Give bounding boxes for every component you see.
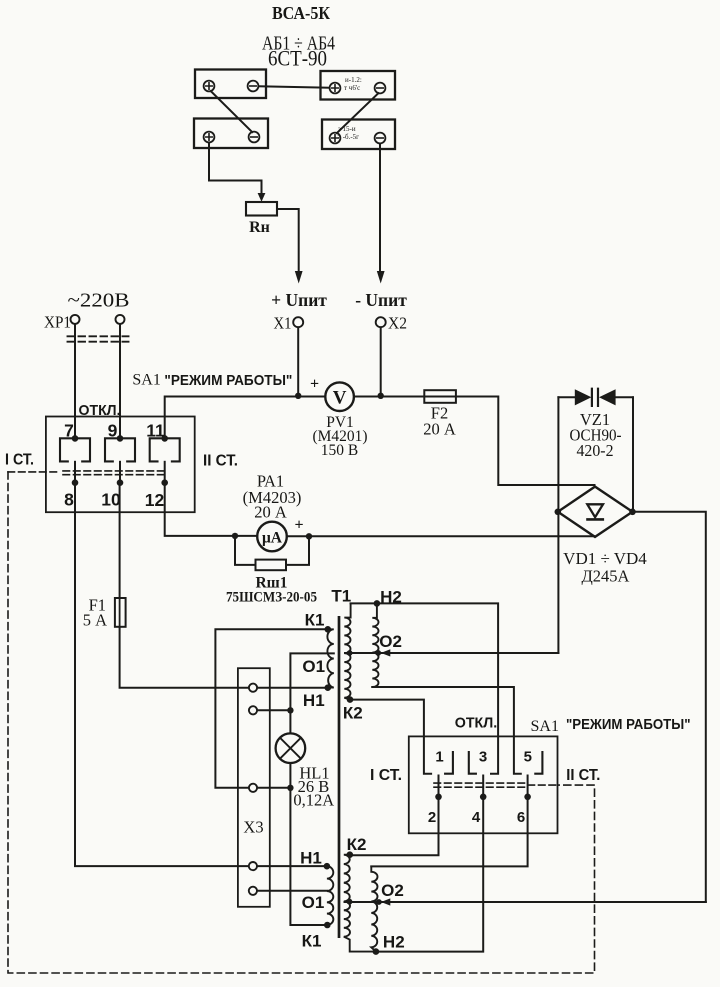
svg-text:X3: X3 — [243, 818, 263, 837]
T1 secondary outer column lower — [371, 866, 377, 951]
wire HL1 bottom down to K1-low — [290, 763, 327, 925]
terminal X2 — [376, 317, 386, 327]
svg-text:5: 5 — [524, 749, 532, 766]
battery GB4 — [322, 120, 395, 150]
contact 7 — [60, 438, 90, 461]
node K1-low — [324, 922, 331, 929]
svg-text:Д245А: Д245А — [582, 567, 630, 586]
transformer T1 core — [338, 617, 341, 936]
node K2-up — [347, 696, 354, 703]
svg-text:1: 1 — [435, 749, 443, 766]
svg-text:11: 11 — [146, 421, 165, 441]
wire X2 down — [380, 327, 382, 395]
node bridge right — [629, 509, 636, 516]
svg-text:420-2: 420-2 — [577, 441, 614, 460]
wire bridge right to lower O2 line — [633, 512, 706, 902]
svg-text:Н1: Н1 — [300, 848, 322, 867]
voltmeter PV1 — [325, 382, 354, 411]
wire X1 down — [297, 327, 299, 395]
svg-text:ВСА-5К: ВСА-5К — [272, 3, 330, 23]
node H2-up — [374, 600, 381, 607]
wire O1-low to X3 — [257, 890, 327, 892]
svg-text:SA1: SA1 — [531, 718, 559, 735]
svg-text:II СТ.: II СТ. — [203, 453, 238, 470]
wire contact8 down to X3 and H1-low — [75, 483, 327, 866]
svg-text:7: 7 — [64, 421, 74, 441]
lamp HL1 — [276, 733, 306, 763]
switch SA1 section 2 box — [409, 736, 558, 833]
svg-text:К1: К1 — [302, 932, 322, 951]
svg-text:+: + — [294, 517, 303, 534]
shunt Rsh1 — [235, 536, 309, 565]
svg-text:О2: О2 — [381, 881, 404, 900]
T1 secondary outer column upper — [372, 603, 378, 687]
battery GB1 — [195, 70, 266, 99]
wire contact11 to PV1 line — [165, 397, 326, 439]
svg-text:0,12А: 0,12А — [293, 790, 334, 809]
wire contact12 to PA1 line — [165, 483, 235, 536]
contact 11 — [150, 438, 180, 461]
node H2-low — [373, 948, 380, 955]
svg-text:X2: X2 — [388, 314, 407, 333]
mech link dashed loop — [8, 472, 595, 973]
svg-text:ХР1: ХР1 — [44, 313, 71, 332]
svg-text:+: + — [310, 376, 319, 393]
svg-text:"РЕЖИМ РАБОТЫ": "РЕЖИМ РАБОТЫ" — [164, 372, 292, 389]
wire GB4 to -U — [379, 144, 381, 272]
svg-text:75ШСМЗ-20-05: 75ШСМЗ-20-05 — [226, 590, 317, 606]
T1 primary winding lower H1-O1-K1 — [327, 866, 333, 925]
contact 1 — [445, 752, 453, 774]
svg-text:150 В: 150 В — [321, 442, 358, 459]
T1 secondary inner column lower — [344, 855, 373, 952]
svg-text:~220В: ~220В — [68, 290, 130, 312]
battery GB3 — [194, 119, 268, 149]
svg-text:Н2: Н2 — [380, 588, 402, 607]
svg-text:2: 2 — [428, 809, 436, 826]
node K1-up — [325, 626, 332, 633]
svg-text:12: 12 — [145, 490, 165, 510]
svg-text:ОТКЛ.: ОТКЛ. — [455, 715, 498, 732]
svg-text:и-1.2:: и-1.2: — [345, 76, 362, 84]
svg-text:6СТ-90: 6СТ-90 — [268, 46, 327, 71]
node O1/HL1 top — [287, 707, 293, 713]
contact 5 — [535, 752, 542, 774]
svg-text:- Uпит: - Uпит — [355, 290, 407, 310]
wire H2-up line to contact 3 — [351, 603, 499, 773]
fuse F1 — [115, 598, 126, 627]
wire K1-up loop to X3 and HL1 bottom — [215, 629, 327, 788]
node bridge left — [555, 509, 562, 516]
node X2 junction — [378, 393, 384, 399]
svg-text:8: 8 — [64, 490, 74, 510]
svg-text:20 А: 20 А — [254, 503, 287, 522]
svg-text:т ч6'с: т ч6'с — [344, 84, 360, 92]
svg-text:5 А: 5 А — [83, 611, 107, 630]
wire K2-up to contact 1 — [350, 700, 431, 774]
mech link dashes section2 — [434, 783, 528, 787]
node X1 junction — [295, 393, 301, 399]
wire GB3 to Rn — [209, 143, 262, 195]
wire O2-up line to bridge left riser — [345, 652, 558, 654]
svg-text:20 А: 20 А — [423, 420, 456, 439]
terminal block X3 — [238, 668, 270, 907]
node H1-low — [324, 863, 331, 870]
svg-text:6: 6 — [517, 809, 525, 826]
wire PA1 to bridge bottom — [287, 535, 594, 537]
X3 terminal circles — [249, 684, 257, 895]
terminal X1 — [293, 317, 303, 327]
svg-text:μА: μА — [262, 529, 283, 546]
svg-text:Т1: Т1 — [331, 586, 351, 605]
svg-text:"РЕЖИМ РАБОТЫ": "РЕЖИМ РАБОТЫ" — [566, 716, 691, 733]
svg-text:О2: О2 — [379, 632, 402, 651]
wire GB2-GB4 — [337, 93, 379, 133]
node HL1 bottom — [287, 785, 293, 791]
fuse F2 — [424, 390, 456, 403]
T1 primary winding upper K1-O1-H1 — [327, 629, 333, 687]
battery GB2 — [321, 71, 396, 100]
wire XP1-R down to contact9 — [119, 324, 121, 438]
svg-text:+ Uпит: + Uпит — [271, 290, 327, 310]
suppressor VZ1 — [558, 396, 633, 398]
rectifier bridge VD1-VD4 — [558, 487, 633, 537]
svg-text:SA1: SA1 — [132, 372, 160, 389]
svg-text:9: 9 — [108, 421, 118, 441]
svg-text:VD1 ÷ VD4: VD1 ÷ VD4 — [563, 549, 647, 568]
T1 secondary inner column upper — [344, 603, 350, 699]
wire X3 to O1 node — [257, 709, 290, 711]
mech link dashes section1 — [8, 471, 60, 473]
svg-text:К1: К1 — [305, 611, 325, 630]
wire GB1-GB3 — [211, 91, 252, 132]
svg-text:К2: К2 — [343, 704, 363, 723]
switch SA1 section 1 box — [46, 417, 195, 513]
svg-text:ОТКЛ.: ОТКЛ. — [79, 402, 121, 419]
svg-text:10: 10 — [101, 490, 121, 510]
svg-text:I СТ.: I СТ. — [370, 767, 402, 784]
svg-text:О1: О1 — [302, 657, 325, 676]
svg-text:II СТ.: II СТ. — [566, 767, 600, 784]
svg-text:4: 4 — [472, 809, 481, 826]
wire contact10 down through F1 to H1-up — [120, 483, 328, 688]
svg-text:Н1: Н1 — [303, 691, 325, 710]
resistor Rn — [246, 202, 277, 216]
contact 4 pin to H2-low — [379, 776, 483, 952]
contact 8 pin — [74, 462, 76, 483]
contact 12 pin — [164, 462, 166, 483]
contact 2 pin to K2-low — [350, 776, 439, 856]
contact 9 — [105, 438, 135, 461]
contact 10 pin — [119, 462, 121, 483]
wire XP1-L down to contact7 — [74, 324, 76, 438]
svg-text:I СТ.: I СТ. — [5, 452, 34, 469]
wire Rn to +U — [277, 209, 299, 271]
wire outer-up bottom to contact 5 — [372, 687, 521, 774]
wire O1-up tap to X3 node and lamp — [290, 653, 333, 733]
node H1-up — [325, 684, 332, 691]
contact 3 — [469, 752, 476, 774]
wire VZ1 left riser down to O2 line — [557, 397, 559, 653]
svg-text:О1: О1 — [302, 893, 325, 912]
svg-text:> -б.-5г: > -б.-5г — [337, 133, 359, 141]
wire PV1 to F2 to bridge top — [354, 397, 595, 486]
wire GB1-GB2 — [259, 86, 330, 87]
contact 6 pin to outer-low top — [371, 776, 527, 867]
svg-text:X1: X1 — [274, 314, 292, 333]
svg-text:V: V — [333, 387, 347, 408]
node K2-low — [347, 851, 354, 858]
svg-text:К2: К2 — [347, 835, 367, 854]
wire VZ1 right riser — [632, 397, 634, 512]
svg-text:Н2: Н2 — [383, 933, 405, 952]
svg-text:Rн: Rн — [249, 219, 270, 236]
wire O2-low line — [345, 901, 706, 903]
svg-text:3: 3 — [479, 749, 487, 766]
